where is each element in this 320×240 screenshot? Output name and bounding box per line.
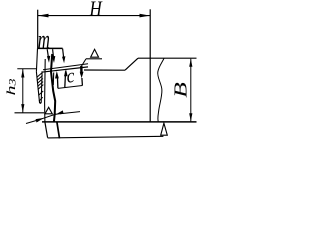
svg-text:H: H [89, 0, 104, 20]
svg-text:m: m [38, 25, 50, 54]
svg-text:B: B [171, 82, 191, 98]
